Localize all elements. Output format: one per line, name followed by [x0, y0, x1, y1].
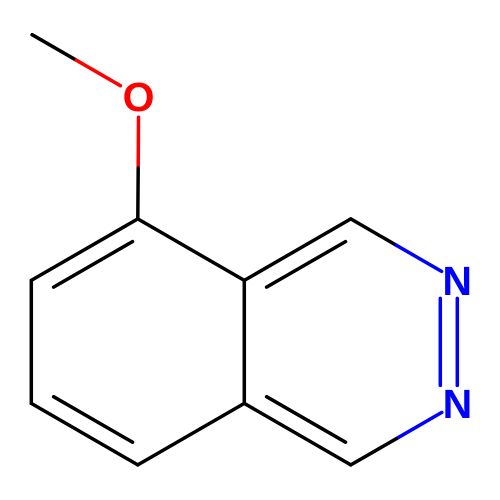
svg-text:N: N — [443, 381, 473, 427]
svg-text:O: O — [123, 74, 155, 120]
svg-text:N: N — [442, 258, 472, 304]
